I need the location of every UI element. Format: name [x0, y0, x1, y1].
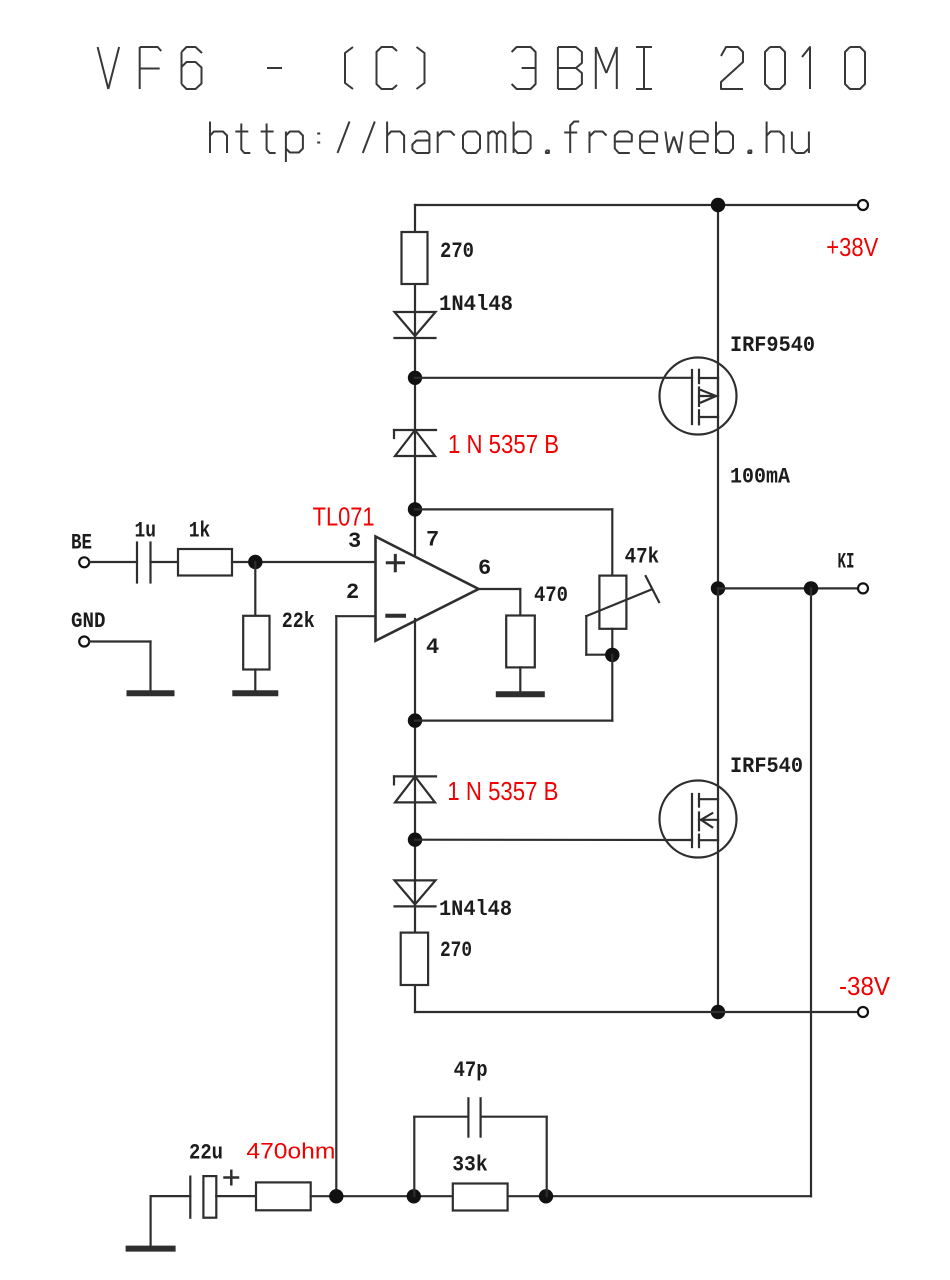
svg-text:270: 270: [440, 938, 472, 963]
svg-text:KI: KI: [838, 550, 855, 575]
svg-text:GND: GND: [71, 609, 106, 634]
svg-text:IRF9540: IRF9540: [730, 333, 815, 358]
svg-text:270: 270: [440, 239, 474, 264]
svg-text:470: 470: [534, 583, 568, 608]
svg-text:7: 7: [426, 528, 439, 553]
svg-text:-38V: -38V: [839, 971, 891, 1001]
svg-text:1N4l48: 1N4l48: [439, 897, 512, 922]
svg-text:470ohm: 470ohm: [246, 1138, 335, 1163]
svg-text:1 N 5357 B: 1 N 5357 B: [448, 429, 559, 459]
svg-text:BE: BE: [71, 531, 92, 556]
svg-text:1N4l48: 1N4l48: [439, 292, 513, 317]
svg-text:+38V: +38V: [826, 232, 879, 262]
svg-text:22k: 22k: [282, 609, 315, 634]
svg-text:22u: 22u: [189, 1141, 223, 1166]
svg-text:47p: 47p: [454, 1058, 488, 1083]
svg-text:4: 4: [426, 635, 439, 660]
svg-text:1u: 1u: [135, 519, 157, 544]
svg-text:1 N 5357 B: 1 N 5357 B: [447, 776, 558, 806]
svg-text:3: 3: [348, 529, 361, 554]
svg-text:IRF540: IRF540: [730, 754, 803, 779]
svg-text:33k: 33k: [452, 1153, 488, 1178]
svg-text:6: 6: [478, 556, 491, 581]
svg-text:2: 2: [346, 580, 359, 605]
svg-text:47k: 47k: [625, 545, 660, 570]
svg-text:1k: 1k: [189, 519, 211, 544]
svg-text:TL071: TL071: [313, 502, 375, 532]
svg-text:100mA: 100mA: [730, 465, 791, 490]
